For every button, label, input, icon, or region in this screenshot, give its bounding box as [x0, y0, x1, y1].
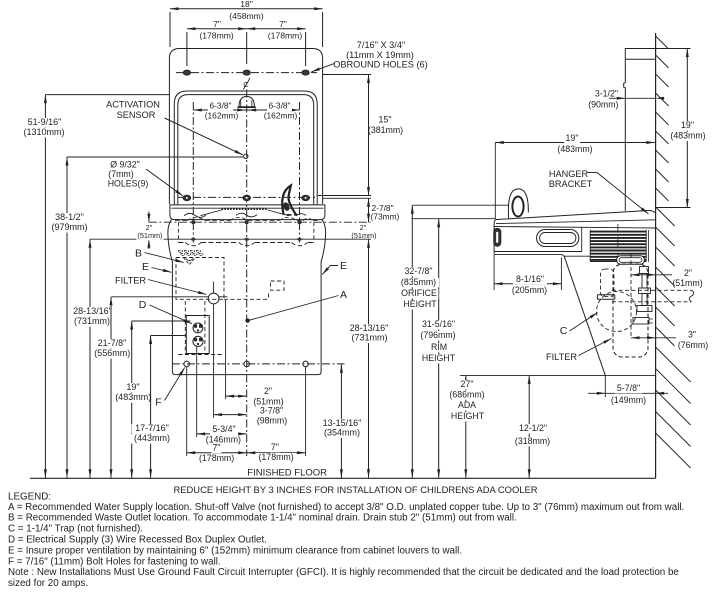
svg-text:F = 7/16" (11mm) Bolt Holes fo: F = 7/16" (11mm) Bolt Holes for fastenin…	[8, 556, 221, 567]
svg-text:(178mm): (178mm)	[199, 453, 234, 463]
dim 2in (51mm) bottom	[226, 395, 247, 397]
dim 7in right bottom	[247, 452, 306, 454]
svg-text:(73mm): (73mm)	[371, 212, 400, 222]
svg-text:(162mm): (162mm)	[264, 110, 298, 120]
svg-text:2": 2"	[264, 386, 272, 396]
supply stub A (hidden)	[612, 289, 692, 291]
svg-text:(979mm): (979mm)	[51, 222, 87, 232]
front view: cooler front panel outer	[174, 91, 317, 205]
svg-text:(731mm): (731mm)	[74, 316, 110, 326]
dimension 7in (178mm) right spacing	[247, 28, 306, 30]
cabinet left side	[168, 220, 176, 375]
svg-text:19": 19"	[681, 120, 694, 130]
hanger bracket hidden outline	[177, 222, 179, 242]
svg-text:(76mm): (76mm)	[678, 340, 708, 350]
ext line 38-1/2 to sensor	[67, 156, 243, 158]
trap tailpiece (hidden)	[601, 269, 614, 297]
svg-text:51-9/16": 51-9/16"	[28, 117, 62, 127]
svg-text:(483mm): (483mm)	[115, 392, 151, 402]
dim 31-5/16 rim height	[438, 219, 440, 478]
svg-text:RIM: RIM	[431, 342, 447, 352]
svg-text:3-7/8": 3-7/8"	[260, 406, 283, 416]
svg-text:7": 7"	[212, 443, 220, 453]
svg-text:D = Electrical Supply (3) Wire: D = Electrical Supply (3) Wire Recessed …	[8, 535, 267, 546]
bubbler (front view)	[239, 97, 254, 107]
svg-text:21-7/8": 21-7/8"	[98, 338, 127, 348]
svg-text:13-15/16": 13-15/16"	[323, 418, 362, 428]
dim 21-7/8 line	[110, 297, 112, 478]
svg-text:(7mm): (7mm)	[108, 169, 133, 179]
bolt hole row y=364	[172, 363, 345, 365]
svg-text:SENSOR: SENSOR	[117, 110, 156, 120]
dim 2in right row gap	[368, 239, 370, 248]
svg-text:5-7/8": 5-7/8"	[617, 383, 640, 393]
svg-text:(51mm): (51mm)	[672, 278, 702, 288]
dim 19in right (bracket height)	[686, 49, 688, 208]
svg-text:19": 19"	[566, 133, 579, 143]
hole centerlines 6-3/8 offset	[192, 102, 194, 243]
svg-text:(51mm): (51mm)	[351, 231, 376, 240]
svg-text:7": 7"	[279, 19, 287, 29]
dim 51-9/16 line	[44, 95, 46, 478]
svg-text:32-7/8": 32-7/8"	[404, 266, 432, 276]
svg-text:FILTER: FILTER	[546, 352, 577, 362]
vertical centerline	[246, 90, 248, 457]
dim 15in (381mm)	[368, 75, 370, 196]
dim 7in left bottom	[187, 452, 247, 454]
svg-text:(1310mm): (1310mm)	[23, 127, 64, 137]
dim 5-3/4 (146mm)	[197, 433, 247, 435]
svg-text:7": 7"	[213, 19, 221, 29]
svg-text:E: E	[340, 260, 347, 272]
svg-text:FILTER: FILTER	[115, 276, 146, 286]
centerline symbol	[241, 78, 253, 90]
small hidden square	[271, 281, 285, 290]
dim 19in depth	[495, 142, 655, 144]
dim 2-7/8 (73mm)	[368, 198, 370, 222]
dim 17-7/16 line	[150, 336, 152, 478]
svg-text:Ø 9/32": Ø 9/32"	[110, 160, 140, 170]
svg-text:(686mm): (686mm)	[449, 389, 484, 399]
dim 2in (51mm) out from wall	[631, 274, 672, 276]
svg-text:HEIGHT: HEIGHT	[403, 299, 437, 309]
svg-text:(90mm): (90mm)	[588, 99, 618, 109]
svg-text:6-3/8": 6-3/8"	[268, 101, 290, 111]
svg-text:(796mm): (796mm)	[420, 330, 455, 340]
svg-text:(443mm): (443mm)	[134, 433, 170, 443]
hanger bracket panel (side)	[624, 49, 656, 212]
obround mounting holes, top row	[176, 72, 317, 74]
wall line	[655, 33, 657, 478]
svg-text:B: B	[135, 247, 142, 259]
grille centerline	[617, 224, 619, 267]
bubbler (side view)	[508, 189, 528, 219]
dim 28-13/16 right line	[368, 248, 370, 478]
dim 3-7/8 (98mm)	[214, 414, 247, 416]
dim 5-7/8 (149mm)	[604, 375, 606, 397]
svg-text:5-3/4": 5-3/4"	[212, 424, 235, 434]
basin drain strip	[222, 208, 268, 210]
ADA bottom ext line	[460, 374, 656, 376]
round holes row y=197	[178, 196, 315, 198]
filter (front view)	[208, 293, 219, 304]
dim 13-15/16 (354mm) bolt row height	[340, 364, 342, 477]
front face	[494, 220, 495, 252]
svg-text:D: D	[139, 299, 147, 311]
svg-text:(458mm): (458mm)	[229, 11, 264, 21]
svg-text:B = Recommended Waste Outlet l: B = Recommended Waste Outlet location. T…	[8, 513, 517, 524]
svg-text:17-7/16": 17-7/16"	[135, 423, 169, 433]
svg-text:(835mm): (835mm)	[401, 277, 436, 287]
dim 28-13/16 line	[89, 239, 91, 478]
svg-text:C: C	[560, 325, 568, 337]
svg-text:ADA: ADA	[458, 400, 476, 410]
svg-text:C = 1-1/4" Trap (not furnished: C = 1-1/4" Trap (not furnished).	[8, 524, 143, 535]
svg-text:(149mm): (149mm)	[611, 395, 646, 405]
svg-text:7": 7"	[271, 442, 279, 452]
basin outer	[170, 205, 325, 220]
svg-text:(178mm): (178mm)	[199, 31, 234, 41]
wall hatching	[656, 36, 691, 468]
svg-text:8-1/16": 8-1/16"	[516, 274, 544, 284]
dimension 2in (51mm) row gap left	[148, 212, 150, 223]
ext/obround row y=239.2	[90, 238, 371, 240]
oval slot	[537, 230, 579, 247]
svg-text:REDUCE HEIGHT BY 3 INCHES FOR: REDUCE HEIGHT BY 3 INCHES FOR INSTALLATI…	[174, 484, 538, 495]
svg-text:28-13/16": 28-13/16"	[73, 306, 112, 316]
hidden ref line 2in from wall	[630, 254, 632, 338]
filter capsule (hidden)	[613, 264, 648, 357]
seam	[581, 227, 583, 252]
activation sensor	[244, 154, 248, 158]
svg-text:(318mm): (318mm)	[515, 436, 550, 446]
svg-text:27": 27"	[461, 379, 474, 389]
body top edge	[494, 227, 655, 229]
svg-text:18": 18"	[240, 0, 253, 9]
svg-text:(98mm): (98mm)	[257, 416, 287, 426]
svg-text:(731mm): (731mm)	[351, 333, 387, 343]
basin hidden scallops	[175, 220, 319, 222]
front push button	[494, 228, 501, 246]
node A water supply point	[246, 319, 250, 323]
svg-text:3-1/2": 3-1/2"	[595, 88, 618, 98]
dim 12-1/2 (318mm)	[528, 375, 530, 477]
dim 3in (76mm) out from wall	[631, 337, 676, 339]
svg-text:E = Insure proper ventilation: E = Insure proper ventilation by maintai…	[8, 545, 462, 556]
svg-text:(11mm X 19mm): (11mm X 19mm)	[346, 50, 414, 60]
body bottom lines	[494, 251, 582, 253]
svg-text:F: F	[155, 397, 161, 409]
svg-text:E: E	[142, 261, 149, 273]
cabinet right side	[318, 220, 326, 375]
front view: cooler front panel inner	[178, 95, 314, 205]
dim 32-7/8 orifice height	[411, 205, 413, 478]
svg-text:HEIGHT: HEIGHT	[451, 411, 485, 421]
flexi-guard spout	[282, 185, 296, 214]
svg-text:7/16" X 3/4": 7/16" X 3/4"	[357, 40, 405, 50]
svg-text:38-1/2": 38-1/2"	[55, 212, 84, 222]
trap (hidden circle)	[597, 292, 637, 332]
floor line	[30, 477, 656, 479]
svg-text:ACTIVATION: ACTIVATION	[106, 100, 160, 110]
dimension 7in (178mm) left spacing	[187, 28, 247, 30]
svg-text:(146mm): (146mm)	[206, 435, 241, 445]
dim 38-1/2 line	[66, 157, 68, 478]
svg-text:(178mm): (178mm)	[268, 31, 303, 41]
svg-text:(381mm): (381mm)	[368, 125, 403, 135]
svg-text:HANGER: HANGER	[549, 169, 589, 179]
svg-text:(205mm): (205mm)	[512, 285, 547, 295]
trap flange	[597, 294, 614, 296]
dim 27 ADA height	[465, 375, 467, 477]
dim 3-1/2 (90mm)	[609, 97, 656, 99]
ext verticals below cabinet	[186, 367, 188, 456]
svg-text:12-1/2": 12-1/2"	[519, 423, 547, 433]
bracket foot under grille	[617, 256, 645, 265]
leader activation sensor	[165, 118, 243, 155]
svg-text:(483mm): (483mm)	[670, 131, 705, 141]
svg-text:2": 2"	[684, 268, 692, 278]
deck top	[495, 210, 655, 219]
dimension 18in (458mm) overall width	[170, 8, 323, 10]
louver grille	[590, 232, 646, 260]
svg-text:A: A	[340, 289, 347, 301]
dimension 6-3/8in (162mm) right	[247, 109, 300, 111]
front view: wall-mount back panel outline	[169, 49, 322, 205]
dim 8-1/16 (205mm)	[493, 252, 495, 291]
svg-text:A = Recommended Water Supply l: A = Recommended Water Supply location. S…	[8, 502, 684, 513]
svg-text:31-5/16": 31-5/16"	[422, 319, 455, 329]
cabinet vent slots	[179, 251, 183, 253]
dimension 6-3/8in (162mm) left	[193, 109, 246, 111]
electrical duplex outlet	[186, 316, 209, 354]
hole row y=222	[149, 221, 371, 223]
svg-text:HOLES(9): HOLES(9)	[108, 179, 149, 189]
svg-text:6-3/8": 6-3/8"	[209, 101, 231, 111]
svg-text:OBROUND HOLES (6): OBROUND HOLES (6)	[333, 59, 427, 69]
outlet hidden box	[184, 301, 186, 355]
svg-text:ORIFICE: ORIFICE	[401, 288, 437, 298]
dim 19 line left	[131, 321, 133, 478]
basin contours	[201, 210, 290, 216]
svg-text:(556mm): (556mm)	[94, 348, 130, 358]
drain stub	[633, 318, 649, 325]
svg-text:(178mm): (178mm)	[258, 452, 293, 462]
svg-text:(354mm): (354mm)	[324, 427, 360, 437]
cabinet bottom	[175, 374, 318, 376]
valve stack near wall	[640, 267, 649, 274]
svg-text:19": 19"	[126, 382, 139, 392]
svg-text:(51mm): (51mm)	[137, 231, 162, 240]
compartment hidden box	[176, 258, 224, 300]
svg-text:(483mm): (483mm)	[557, 144, 592, 154]
svg-text:15": 15"	[379, 115, 392, 125]
svg-text:FINISHED FLOOR: FINISHED FLOOR	[247, 467, 327, 478]
svg-text:Note : New Installations Must: Note : New Installations Must Use Ground…	[8, 567, 679, 578]
ext 17-7/16 to outlet	[151, 335, 186, 337]
svg-text:3": 3"	[688, 330, 696, 340]
svg-text:HEIGHT: HEIGHT	[422, 353, 456, 363]
svg-text:BRACKET: BRACKET	[549, 179, 593, 189]
svg-text:(162mm): (162mm)	[205, 110, 239, 120]
ext 19in to outlet	[132, 320, 191, 322]
svg-text:sized for 20 amps.: sized for 20 amps.	[8, 578, 88, 589]
underside slant	[562, 255, 606, 376]
